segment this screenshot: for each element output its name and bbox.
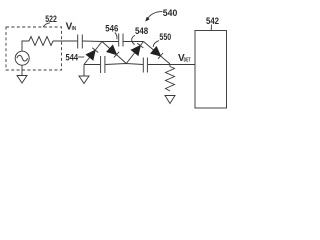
svg-text:540: 540 [163, 8, 178, 18]
capacitor C2 (bottom rail right) [143, 58, 147, 73]
bottom rail left segment [84, 64, 100, 66]
label 540 with arrow [145, 11, 162, 21]
diode D2 diagonal wire [102, 42, 126, 64]
svg-text:546: 546 [105, 24, 118, 34]
label 548 [132, 35, 135, 44]
capacitor C1 (bottom rail left) [101, 56, 105, 73]
diode 548 diagonal wire [126, 42, 143, 64]
bottom rail C2 to VDET node [148, 64, 170, 66]
dashed box (source block 522) [6, 27, 62, 70]
label 522 [43, 23, 50, 27]
load / meter rectangle 542 [195, 31, 227, 109]
diode 544 [86, 48, 98, 60]
ground arrow (load return) [165, 96, 175, 104]
ground arrow (source return) [17, 76, 27, 84]
diode 544 diagonal wire [84, 42, 102, 65]
wire source bottom to ground [21, 65, 23, 75]
label 550 [153, 41, 159, 47]
wire resistor to input capacitor (VIN node) [53, 40, 77, 42]
wire VDET node to load rectangle [170, 64, 195, 66]
label 542 [210, 25, 212, 31]
capacitor 546 (top rail) [119, 34, 123, 47]
svg-text:550: 550 [159, 32, 171, 42]
svg-text:544: 544 [66, 53, 79, 63]
wire cap to apex node 1 (top rail left) [83, 40, 119, 43]
label 544 [78, 56, 84, 58]
svg-text:522: 522 [45, 14, 57, 24]
diode 550 [151, 47, 163, 59]
bottom rail to valley node [105, 64, 143, 65]
resistor R load (vertical) wire top [169, 65, 171, 67]
diode D2 [107, 45, 119, 57]
input coupling capacitor [78, 35, 83, 49]
diode 548 [131, 43, 143, 55]
wire source top to resistor [22, 41, 29, 51]
wire ground stub under first diode [83, 65, 85, 77]
wire cap 546 to apex node 2 (top rail right) [123, 41, 143, 43]
ground arrow (charge-pump input return) [79, 76, 89, 84]
diode 550 diagonal wire [144, 42, 171, 65]
AC source [15, 51, 29, 65]
svg-text:DET: DET [184, 57, 191, 63]
resistor R load (vertical zigzag) [166, 67, 175, 92]
label 546 [115, 33, 117, 40]
svg-text:548: 548 [135, 26, 148, 36]
svg-text:542: 542 [206, 16, 219, 26]
wire resistor to ground arrow [169, 94, 171, 97]
resistor 522 (source resistance) [29, 37, 53, 46]
svg-text:IN: IN [72, 26, 76, 32]
